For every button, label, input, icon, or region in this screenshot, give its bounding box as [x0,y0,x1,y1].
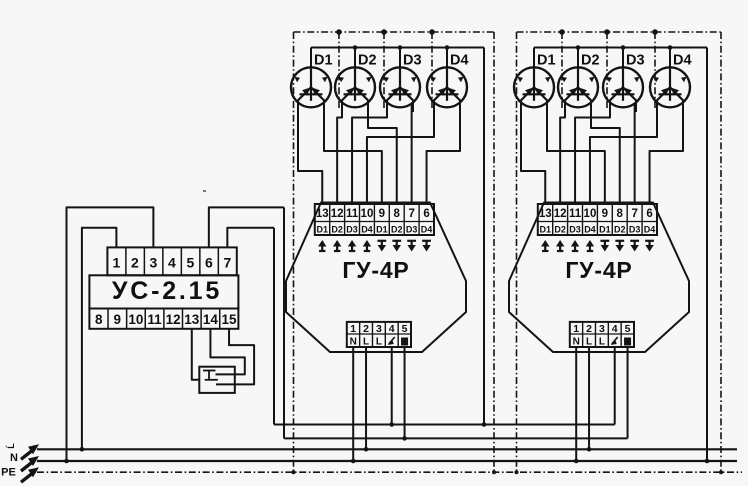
svg-text:3: 3 [149,255,157,271]
svg-text:13: 13 [184,312,200,327]
svg-text:D1: D1 [599,225,611,235]
svg-text:4: 4 [168,255,176,271]
svg-text:D1: D1 [314,53,333,69]
svg-text:4: 4 [612,323,618,335]
svg-text:D3: D3 [626,53,645,69]
svg-text:D1: D1 [539,225,551,235]
svg-text:1: 1 [573,323,579,335]
svg-text:9: 9 [114,312,122,327]
svg-text:D3: D3 [629,225,641,235]
svg-text:14: 14 [203,312,219,327]
svg-text:N: N [573,337,580,348]
svg-text:13: 13 [539,208,552,220]
svg-text:D4: D4 [673,53,692,69]
svg-text:D1: D1 [537,53,556,69]
svg-text:ГУ-4Р: ГУ-4Р [565,257,632,283]
svg-text:11: 11 [569,208,582,220]
svg-text:10: 10 [361,208,374,220]
svg-text:D2: D2 [358,53,377,69]
svg-text:D2: D2 [581,53,600,69]
svg-text:D3: D3 [569,225,581,235]
svg-text:9: 9 [602,208,608,220]
svg-text:Ĺ: Ĺ [6,443,16,449]
svg-text:L: L [599,337,605,348]
svg-text:D2: D2 [391,225,403,235]
svg-text:N: N [10,452,18,464]
svg-text:7: 7 [631,208,637,220]
svg-text:1: 1 [113,255,121,271]
svg-text:PE: PE [1,467,16,479]
svg-text:D2: D2 [554,225,566,235]
svg-text:D4: D4 [584,225,596,235]
svg-text:УС-2.15: УС-2.15 [112,277,222,305]
svg-text:4: 4 [389,323,395,335]
svg-text:D4: D4 [421,225,433,235]
svg-text:11: 11 [346,208,359,220]
svg-text:D4: D4 [644,225,656,235]
svg-text:8: 8 [617,208,624,220]
svg-text:10: 10 [584,208,597,220]
svg-text:5: 5 [186,255,194,271]
svg-text:D1: D1 [316,225,328,235]
svg-text:15: 15 [222,312,238,327]
svg-text:12: 12 [554,208,567,220]
svg-text:1: 1 [350,323,356,335]
svg-text:8: 8 [95,312,103,327]
svg-text:2: 2 [586,323,592,335]
svg-text:D3: D3 [403,53,422,69]
svg-text:8: 8 [394,208,401,220]
svg-text:ГУ-4Р: ГУ-4Р [342,257,409,283]
svg-text:L: L [376,337,382,348]
svg-text:7: 7 [408,208,414,220]
svg-text:D3: D3 [346,225,358,235]
svg-text:D1: D1 [376,225,388,235]
svg-text:D2: D2 [331,225,343,235]
svg-text:6: 6 [423,208,429,220]
svg-text:6: 6 [205,255,213,271]
svg-text:D4: D4 [361,225,373,235]
svg-text:13: 13 [316,208,329,220]
svg-text:10: 10 [128,312,143,327]
svg-text:3: 3 [599,323,605,335]
svg-text:6: 6 [646,208,652,220]
svg-text:D4: D4 [450,53,469,69]
svg-text:7: 7 [223,255,231,271]
svg-text:9: 9 [379,208,385,220]
svg-text:L: L [363,337,369,348]
svg-text:11: 11 [147,312,162,327]
svg-text:5: 5 [625,323,631,335]
svg-text:N: N [350,337,357,348]
svg-text:2: 2 [131,255,139,271]
svg-text:5: 5 [402,323,408,335]
svg-text:3: 3 [376,323,382,335]
svg-text:12: 12 [166,312,181,327]
svg-text:D2: D2 [614,225,626,235]
svg-text:12: 12 [331,208,344,220]
svg-text:2: 2 [363,323,369,335]
svg-text:D3: D3 [406,225,418,235]
svg-text:L: L [586,337,592,348]
